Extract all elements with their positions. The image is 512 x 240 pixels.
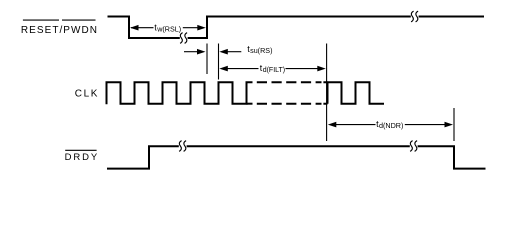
dimension td(NDR) double arrow [328,122,337,128]
label tw(RSL) [154,22,181,33]
wire CLK dashed high line [257,81,322,83]
svg-text:RESET/PWDN: RESET/PWDN [21,25,98,36]
break on RESET high line [411,11,418,22]
label tsu(RS) [247,44,272,55]
wire CLK solid pulses [107,82,253,104]
svg-text:DRDY: DRDY [65,152,100,163]
node RESET/PWDN label [21,20,98,36]
svg-text:CLK: CLK [75,89,99,100]
svg-text:w(RSL): w(RSL) [156,24,181,33]
wire CLK resumed pulses and tail [328,82,385,103]
svg-text:d(FILT): d(FILT) [263,67,285,74]
node marker line at end of td(FILT) [326,44,328,142]
label td(FILT) [260,63,285,74]
break on RESET low line [180,33,187,44]
wire RESET/PWDN waveform: high, fall, low segment to break [108,17,180,39]
svg-text:d(NDR): d(NDR) [379,121,403,130]
wire CLK close bracket stubs [323,82,327,103]
node marker line at DRDY falling edge [453,108,455,141]
label td(NDR) [376,119,403,130]
svg-text:su(RS): su(RS) [250,46,272,55]
dimension tw(RSL) double arrow [131,27,199,29]
wire DRDY high after break, fall, low tail [418,146,486,168]
break on DRDY high line (right) [410,141,417,152]
wire DRDY low, rise, high to first break [107,146,179,168]
wire CLK dashed low line [257,103,322,105]
break on DRDY high line (left) [179,141,186,152]
wire DRDY high between breaks [187,145,410,147]
dimension td(FILT) arrow [219,66,228,72]
wire RESET/PWDN high segment after second break to end [419,16,484,18]
node DRDY label [65,150,100,163]
dimension tsu(RS) arrows [184,51,198,53]
wire CLK open bracket bottom stub [247,103,253,105]
node marker line at CLK rising edge [218,44,220,80]
wire RESET/PWDN low segment after break, rise, high segment to break [188,17,411,39]
node marker line at RESET rising edge [206,44,208,75]
